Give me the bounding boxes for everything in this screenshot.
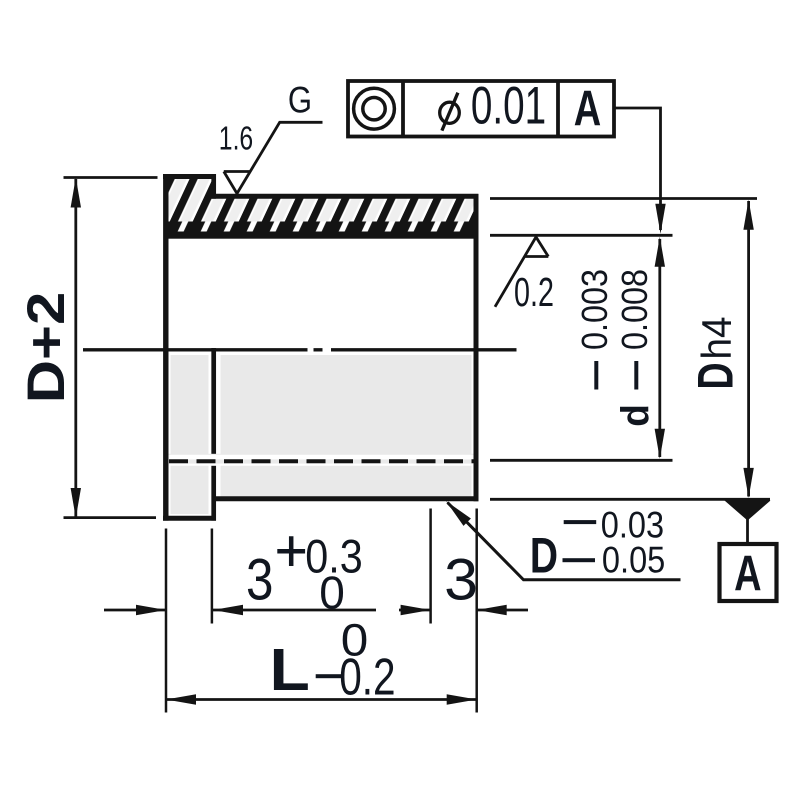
D+2 bottom extension line — [64, 516, 157, 519]
D leader arrow — [446, 501, 471, 526]
Dh4 arrow down — [743, 468, 753, 498]
FCF leader line — [614, 108, 661, 230]
knurl band (press-fit surface) — [166, 222, 477, 239]
flange 3 dimension left tail — [104, 609, 166, 612]
flange right vertical (lower) — [211, 348, 216, 521]
L dimension line — [166, 698, 477, 701]
datum A stem — [746, 519, 749, 545]
flange 3 arrow right-pointing — [136, 605, 166, 615]
plus sign — [277, 536, 305, 566]
bottom extension line body right — [475, 509, 478, 713]
d dimension line — [658, 239, 661, 457]
flange left edge — [163, 174, 168, 521]
d arrow up — [655, 237, 665, 267]
flange 3 right tail — [213, 609, 376, 612]
flange 3 arrow left-pointing — [213, 605, 243, 615]
svg-text:0: 0 — [319, 567, 345, 619]
svg-text:3: 3 — [444, 547, 478, 612]
svg-text:L: L — [270, 637, 310, 703]
hidden (dashed) bore line halo — [169, 454, 474, 466]
body bottom edge — [212, 496, 479, 501]
flange bottom edge — [163, 516, 216, 521]
svg-text:0.01: 0.01 — [471, 76, 546, 135]
D tolerance upper -0.03 — [564, 520, 597, 524]
svg-text:3: 3 — [246, 548, 273, 613]
feature control frame box — [348, 81, 614, 137]
bottom extension line flange right — [211, 529, 214, 624]
svg-text:d: d — [615, 404, 658, 427]
svg-text:0.008: 0.008 — [615, 269, 655, 350]
phi diameter symbol — [440, 102, 460, 123]
svg-text:D: D — [530, 527, 558, 584]
hidden (dashed) bore line — [169, 459, 474, 463]
main body top edge — [212, 194, 479, 199]
counterbore 3 arrow left-pointing — [477, 605, 507, 615]
FCF divider 2 — [556, 81, 560, 137]
concentricity symbol outer circle — [354, 88, 395, 129]
FCF leader arrow — [655, 204, 665, 234]
svg-text:h4: h4 — [692, 317, 740, 360]
right extension line top (flange OD) — [490, 197, 757, 200]
svg-text:A: A — [574, 81, 601, 136]
svg-text:0.2: 0.2 — [339, 648, 395, 706]
right extension line bore top — [490, 234, 673, 237]
bore lower-half fill (flange column) — [171, 355, 209, 514]
D leader line — [448, 503, 681, 580]
right extension line body bottom — [490, 498, 770, 501]
Dh4 arrow up — [743, 200, 753, 230]
bottom extension line counterbore — [429, 509, 432, 624]
datum A box — [720, 544, 777, 601]
L arrow right — [447, 694, 477, 704]
FCF divider 1 — [401, 81, 405, 137]
svg-text:D: D — [688, 362, 743, 389]
body right edge — [474, 194, 479, 501]
D+2 top extension line — [64, 176, 158, 179]
counterbore 3 left tail — [399, 609, 431, 612]
svg-text:0.2: 0.2 — [514, 270, 554, 315]
d arrow down — [655, 429, 665, 459]
0.2 surface mark triangle (inverted) — [495, 237, 548, 307]
svg-text:G: G — [288, 80, 312, 121]
centerline — [83, 348, 517, 351]
D tolerance lower -0.05 — [563, 558, 596, 562]
concentricity symbol inner circle — [363, 98, 385, 120]
section hatch band — [160, 170, 485, 235]
right extension line bore bottom — [490, 459, 673, 462]
svg-text:0.05: 0.05 — [602, 539, 665, 580]
bottom extension line flange left — [165, 529, 168, 713]
svg-text:1.6: 1.6 — [219, 121, 253, 157]
flange top edge — [163, 174, 216, 179]
D+2 arrow down — [71, 488, 81, 518]
D+2 dimension line — [74, 179, 77, 517]
D+2 arrow up — [71, 178, 81, 208]
L tolerance -0.2 minus — [316, 674, 342, 678]
counterbore 3 arrow right-pointing — [401, 605, 431, 615]
bore lower-half fill (main body) — [221, 355, 472, 497]
flange step vertical — [211, 174, 216, 199]
svg-text:D+2: D+2 — [16, 292, 75, 404]
counterbore 3 right tail — [477, 609, 528, 612]
Dh4 dimension line — [747, 201, 750, 497]
svg-text:A: A — [734, 547, 761, 602]
L arrow left — [166, 694, 196, 704]
svg-text:0.003: 0.003 — [575, 269, 615, 350]
knurl notches — [169, 222, 474, 232]
datum A triangle — [725, 501, 771, 521]
G surface mark triangle — [224, 122, 323, 193]
